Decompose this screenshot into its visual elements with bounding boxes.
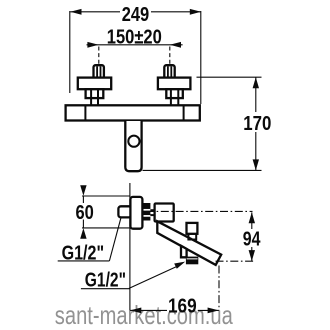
underline of upper G1/2 — [58, 260, 110, 262]
svg-text:249: 249 — [122, 3, 150, 26]
aerator dark ring — [186, 257, 198, 265]
svg-text:sant-market.com.ua: sant-market.com.ua — [55, 302, 234, 330]
dashed extension to left valve centerline — [98, 47, 100, 65]
bar right cap divider — [183, 105, 185, 120]
dashed extension to right valve centerline — [169, 47, 171, 65]
spout side view — [157, 221, 221, 265]
dimension 150±20 line — [87, 42, 183, 48]
wall mounting bar — [66, 105, 200, 120]
supply fitting side view — [118, 206, 131, 217]
svg-text:169: 169 — [168, 295, 197, 318]
column circle opening — [128, 136, 139, 147]
diverter knob — [187, 223, 198, 234]
wall flange side view — [130, 197, 142, 229]
svg-text:170: 170 — [243, 112, 271, 135]
right valve lower nut — [166, 89, 183, 98]
left valve bonnet — [94, 65, 104, 78]
dimension 94 line — [249, 212, 255, 261]
leader from lower G1/2 to aerator — [129, 262, 185, 289]
left valve body — [78, 78, 111, 90]
right valve tailpiece — [170, 97, 172, 106]
wall line side view — [129, 183, 131, 310]
dimension 249 line — [70, 9, 201, 15]
centerline of body (dash-dot) — [146, 210, 253, 212]
dimension 170 bottom reference line — [143, 169, 262, 171]
left valve lower nut — [86, 89, 104, 98]
right valve body — [158, 78, 191, 90]
extension line right of 249 — [200, 11, 202, 104]
underline of lower G1/2 — [81, 288, 130, 290]
dimension 169 line — [130, 308, 219, 314]
right valve bonnet — [164, 65, 174, 78]
vertical centerline at spout tip (dash-dot) — [218, 266, 220, 311]
neck side view — [150, 210, 155, 215]
svg-text:150±20: 150±20 — [107, 25, 162, 48]
dimension 170 line — [253, 77, 259, 170]
dimension 60 bottom reference line — [82, 227, 130, 229]
leader from upper G1/2 to fitting — [109, 217, 121, 261]
aerator white housing — [181, 246, 187, 257]
diverter knob stem — [188, 234, 196, 240]
extension line left of 249 — [69, 11, 71, 93]
spout tip level centerline (dash-dot) — [216, 260, 254, 262]
svg-text:G1/2": G1/2" — [85, 269, 126, 292]
spout column front view — [125, 121, 141, 171]
dimension 60 arrows and line — [80, 185, 86, 239]
svg-text:60: 60 — [76, 201, 94, 224]
cartridge block side view — [155, 204, 174, 222]
left valve tailpiece — [90, 97, 92, 106]
svg-text:94: 94 — [243, 227, 261, 250]
bar left cap divider — [84, 105, 86, 120]
ribbed nut side view — [144, 203, 151, 221]
dimension 60 top reference line — [82, 195, 130, 197]
dimension 170 top reference line — [197, 76, 262, 78]
